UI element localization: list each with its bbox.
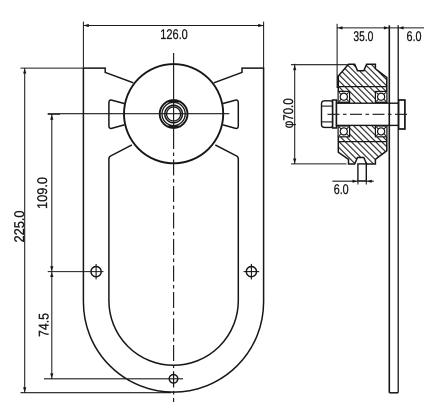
dim 109.0 line — [51, 114, 53, 271]
dim 74.5 line — [51, 272, 53, 379]
bearing top-left — [338, 91, 350, 102]
mounting hole bottom — [169, 375, 178, 384]
dim 126.0 extension lines — [82, 22, 84, 69]
bearing bottom-left — [338, 126, 350, 137]
plate outer outline — [83, 68, 263, 392]
svg-text:6.0: 6.0 — [407, 28, 422, 44]
horizontal centerline — [48, 113, 230, 115]
mounting hole left — [91, 267, 101, 277]
motor boss circle — [124, 64, 223, 163]
pulley bottom stem — [358, 164, 366, 181]
bearing bottom-right — [375, 126, 387, 137]
vertical centerline — [173, 53, 175, 149]
shaft nut left — [322, 101, 333, 128]
shaft — [336, 103, 404, 125]
shaft end washer right — [399, 100, 405, 129]
mounting hole right — [246, 267, 256, 277]
dim 35.0 extension line — [336, 24, 338, 88]
dim 126.0 line — [83, 25, 263, 27]
dim 225.0 extension lines — [21, 67, 85, 69]
dim 109.0 extension line — [48, 113, 60, 115]
dim 74.5 arrows — [50, 272, 53, 379]
dim 225.0 arrows — [23, 68, 26, 393]
shaft boss ring inner edge — [162, 102, 185, 125]
shaft boss outer ring — [160, 100, 188, 128]
shaft nut washer — [333, 100, 337, 128]
dim 6.0 bottom stem extension overshoot — [357, 181, 359, 185]
dim line 35.0 / 6.0 chain — [337, 27, 424, 29]
svg-text:φ70.0: φ70.0 — [280, 98, 296, 128]
dim 109.0 arrows — [50, 114, 53, 271]
left ear tab — [109, 100, 124, 128]
svg-text:74.5: 74.5 — [36, 313, 52, 337]
dim 6.0 bottom arrows — [353, 180, 372, 183]
shaft boss flat chord top — [167, 101, 181, 103]
dim 6.0 bottom line — [332, 180, 373, 182]
plate inner slot outline — [109, 145, 238, 365]
svg-text:225.0: 225.0 — [11, 210, 27, 242]
svg-text:35.0: 35.0 — [353, 28, 373, 44]
dim phi70 arrows — [293, 65, 296, 164]
shaft circle — [165, 105, 183, 123]
dim 225.0 line — [24, 68, 26, 393]
shaft centerline — [328, 113, 410, 115]
pulley hub shoulder lines — [338, 86, 387, 88]
bracket plate edge-on — [388, 25, 390, 393]
dim phi70 line — [294, 64, 296, 164]
dim 35.0 / 6.0 arrows — [337, 26, 404, 29]
svg-text:109.0: 109.0 — [34, 177, 50, 209]
dim phi70 extension lines — [291, 64, 349, 66]
dim 74.5 extension lines — [48, 271, 104, 273]
bearing top-right — [375, 91, 387, 102]
shaft boss flat chord bottom — [167, 125, 181, 127]
dim 126.0 arrows — [83, 24, 263, 27]
svg-text:126.0: 126.0 — [160, 26, 188, 42]
pulley section hatched body — [338, 64, 387, 164]
shaft bore circle — [167, 107, 181, 121]
right ear tab — [223, 100, 238, 128]
svg-text:6.0: 6.0 — [334, 181, 349, 197]
